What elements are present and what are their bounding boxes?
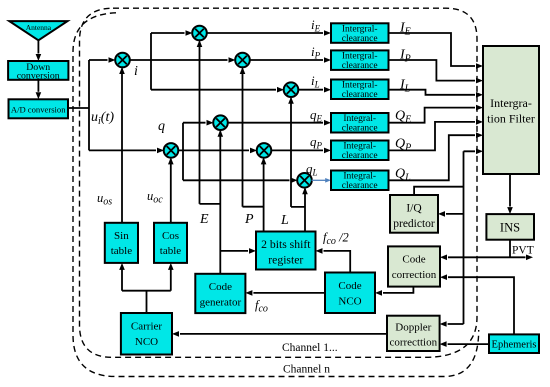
integral-clearance box 2 xyxy=(331,50,389,71)
down conversion U1 xyxy=(8,61,68,80)
integral-clearance box 3 xyxy=(331,80,389,101)
ephemeris U8 xyxy=(489,334,539,353)
mixer M5 iL xyxy=(284,82,299,97)
channel 1 dashed boundary xyxy=(80,8,478,357)
wire i row to iP mixer xyxy=(130,59,228,61)
svg-text:i: i xyxy=(134,64,138,79)
wire uoc cos table to q mixer xyxy=(170,159,172,223)
svg-text:I/Q: I/Q xyxy=(406,203,422,215)
svg-text:clearance: clearance xyxy=(342,90,378,100)
2 bits shift register U10 xyxy=(256,232,316,270)
svg-text:Code: Code xyxy=(402,254,425,266)
wire I/Q predictor output to filter xyxy=(414,187,463,195)
svg-text:table: table xyxy=(111,245,132,257)
svg-text:generator: generator xyxy=(200,296,242,308)
svg-text:NCO: NCO xyxy=(338,296,361,308)
wire carrier NCO to sin cos tables xyxy=(122,269,171,313)
wire q row to qP mixer xyxy=(178,149,249,151)
svg-text:correcttion: correcttion xyxy=(389,337,437,349)
svg-text:Intergra-: Intergra- xyxy=(490,96,532,110)
integration filter U3 xyxy=(483,46,539,174)
mixer M3 iE xyxy=(192,26,207,41)
svg-text:register: register xyxy=(268,254,303,267)
wire A/D output trunk node ui(t) xyxy=(68,60,156,150)
A/D conversion U2 xyxy=(9,99,69,118)
sin table U13 xyxy=(105,223,138,263)
svg-text:clearance: clearance xyxy=(342,61,378,71)
mixer M7 qP xyxy=(257,143,272,158)
mixer M8 qL xyxy=(297,173,312,188)
wire iL mixer to integral box 3 xyxy=(298,89,323,91)
wire E line code generator to qE mixer and shift register xyxy=(200,42,249,274)
wire antenna to down conversion xyxy=(37,40,39,53)
wire iE mixer to integral box 1 xyxy=(207,32,324,34)
svg-text:Carrier: Carrier xyxy=(131,321,162,333)
svg-text:INS: INS xyxy=(500,221,520,235)
wire code correction to code NCO xyxy=(383,287,413,293)
wire down conversion to A/D xyxy=(37,80,39,92)
wire i riser and branches to iE iL mixers xyxy=(151,33,276,90)
wire code NCO to shift register fco/2 xyxy=(324,251,351,273)
svg-text:NCO: NCO xyxy=(135,336,158,348)
wire P line shift register to qP iP mixers xyxy=(243,69,264,232)
wire iP mixer to integral box 2 xyxy=(250,59,324,61)
svg-text:correction: correction xyxy=(392,269,437,281)
wire L line shift register to qL iL mixers xyxy=(291,98,305,231)
code generator U11 xyxy=(195,274,245,313)
svg-text:Channel n: Channel n xyxy=(283,364,330,376)
integral-clearance box 5 xyxy=(331,141,389,162)
svg-text:E: E xyxy=(199,212,209,227)
wire IP to filter xyxy=(389,60,476,81)
svg-text:tion Filter: tion Filter xyxy=(487,112,535,126)
wire ephemeris to code correction xyxy=(448,277,514,334)
svg-text:clearance: clearance xyxy=(342,124,378,134)
svg-text:ui(t): ui(t) xyxy=(91,110,114,127)
wire qE mixer to integral box 4 xyxy=(228,122,324,124)
wire doppler correction to carrier NCO xyxy=(180,333,387,335)
wire ephemeris to doppler correction xyxy=(448,343,489,345)
svg-text:P: P xyxy=(244,212,254,227)
wire IL to filter xyxy=(389,90,476,95)
svg-text:table: table xyxy=(160,245,181,257)
svg-text:Ephemeris: Ephemeris xyxy=(492,340,537,351)
wire QE to filter xyxy=(389,108,476,123)
wire QP to filter xyxy=(389,122,476,150)
svg-text:L: L xyxy=(280,213,289,228)
code NCO U9 xyxy=(325,273,375,314)
wire qP mixer to integral box 5 xyxy=(271,149,323,151)
svg-text:Cos: Cos xyxy=(162,230,179,242)
mixer M2 q xyxy=(164,143,179,158)
wire uos sin table to i mixer xyxy=(121,69,123,223)
I/Q predictor U4 xyxy=(390,195,438,233)
mixer M1 i xyxy=(115,53,130,68)
mixer M6 qE xyxy=(213,115,228,130)
svg-text:2 bits shift: 2 bits shift xyxy=(261,238,311,251)
svg-text:Code: Code xyxy=(338,280,361,292)
svg-text:Channel 1...: Channel 1... xyxy=(282,342,338,354)
svg-text:Doppler: Doppler xyxy=(395,322,431,334)
svg-text:predictor: predictor xyxy=(393,218,435,230)
wire IE to filter xyxy=(389,33,476,66)
integral-clearance box 6 xyxy=(331,171,389,192)
wire qL mixer to integral box 6 blue xyxy=(312,179,326,181)
svg-text:Antenna: Antenna xyxy=(26,23,52,32)
svg-text:Sin: Sin xyxy=(114,230,129,242)
antenna xyxy=(9,21,67,40)
wire code NCO to code generator fco xyxy=(253,292,325,294)
channel n dashed boundary xyxy=(73,13,479,377)
svg-text:clearance: clearance xyxy=(342,151,378,161)
carrier NCO U12 xyxy=(121,313,172,355)
cos table U14 xyxy=(154,223,187,263)
mixer M4 iP xyxy=(235,53,250,68)
svg-text:q: q xyxy=(158,119,165,134)
svg-text:A/D conversion: A/D conversion xyxy=(11,105,66,115)
svg-text:Code: Code xyxy=(209,281,232,293)
wire filter to INS xyxy=(509,174,511,207)
wire q riser and branches to qE qL mixers xyxy=(183,123,290,181)
wire QL to filter xyxy=(389,135,476,180)
doppler correction U7 xyxy=(387,316,440,351)
svg-text:PVT: PVT xyxy=(512,245,534,257)
wire bus predictor/PVT vertical xyxy=(446,151,475,324)
INS U5 xyxy=(486,214,534,240)
svg-text:clearance: clearance xyxy=(342,34,378,44)
wire INS to PVT row and code correction xyxy=(448,240,526,258)
integral-clearance box 1 xyxy=(331,23,389,44)
code correction U6 xyxy=(388,246,440,286)
integral-clearance box 4 xyxy=(331,113,389,134)
svg-text:clearance: clearance xyxy=(342,181,378,191)
